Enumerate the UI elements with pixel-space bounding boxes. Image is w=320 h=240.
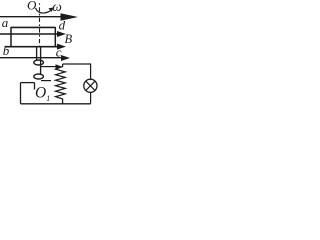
lamp X stroke 2 [86, 81, 95, 90]
axle left line [36, 48, 38, 62]
svg-text:O: O [27, 0, 37, 12]
rotation arrow (curved, around axis) [36, 8, 52, 13]
field line B4 arrowhead [61, 55, 70, 61]
svg-text:d: d [59, 17, 66, 32]
brush1 wire arrowhead [56, 64, 63, 69]
coil side ad (top) [11, 26, 55, 28]
slip ring 1 [34, 60, 44, 65]
axle right line [40, 48, 42, 76]
slip ring 2 [34, 74, 44, 79]
wire rect top [21, 82, 35, 84]
coil side ab (left) [10, 27, 12, 47]
wire rect left [20, 83, 22, 104]
lamp L (circle) [84, 79, 97, 92]
svg-text:ω: ω [52, 0, 62, 14]
field line B2 [0, 33, 58, 35]
svg-text:a: a [2, 15, 9, 30]
wire brush2 stub [41, 80, 51, 82]
coil side dc (right) [54, 27, 56, 47]
rotation arrowhead [49, 8, 54, 13]
wire lamp bottom [90, 92, 92, 103]
field line B1 arrowhead [61, 13, 79, 21]
lamp X stroke 1 [86, 81, 95, 90]
wire brush1 to resistor [41, 66, 56, 68]
field line B2 arrowhead [57, 31, 66, 37]
field line B3 arrowhead [57, 44, 66, 50]
field line B1 [0, 16, 62, 18]
svg-text:b: b [3, 43, 10, 58]
field line B3 / coil side bc (bottom) [5, 46, 58, 48]
svg-text:1: 1 [46, 94, 50, 103]
svg-text:O: O [35, 85, 46, 102]
resistor R (zigzag) [56, 64, 66, 104]
wire bottom [21, 103, 91, 105]
field line B4 (base line) [0, 57, 62, 59]
wire resistor top to lamp [63, 64, 91, 79]
svg-text:B: B [65, 32, 73, 46]
rotation axis OO1 (vertical dash-dot) [39, 3, 41, 47]
wire brush2 drop [34, 83, 36, 90]
